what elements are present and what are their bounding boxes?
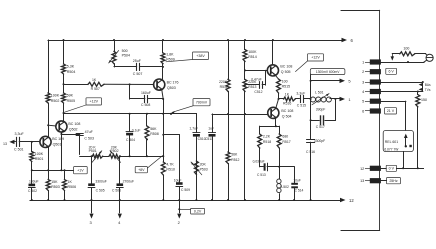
svg-text:6 V: 6 V bbox=[388, 70, 394, 74]
wire Q505 base bbox=[245, 70, 267, 72]
svg-text:100K: 100K bbox=[248, 50, 257, 54]
wire Q501 collector to Q502 base bbox=[48, 125, 50, 136]
resistor 150 bbox=[417, 92, 419, 95]
frame right border bbox=[341, 10, 380, 12]
capacitor C503 bbox=[76, 133, 83, 135]
potentiometer P504 bbox=[113, 39, 115, 41]
svg-text:BC 176: BC 176 bbox=[167, 80, 179, 84]
svg-text:BC 108: BC 108 bbox=[280, 64, 292, 68]
box +1V bbox=[74, 167, 88, 174]
node rail x63.5 bbox=[63, 39, 65, 41]
wire R501 column bbox=[31, 142, 33, 152]
svg-text:L 501: L 501 bbox=[315, 90, 324, 94]
svg-text:20K: 20K bbox=[200, 162, 207, 166]
svg-text:0,47uF: 0,47uF bbox=[251, 77, 262, 81]
svg-text:R510: R510 bbox=[166, 168, 175, 172]
wire Q502 collector up bbox=[63, 113, 65, 121]
capacitor C510 column bbox=[196, 114, 198, 133]
svg-text:10uF: 10uF bbox=[293, 179, 300, 183]
capacitor C509 column bbox=[163, 134, 179, 136]
wire pin3 bbox=[381, 82, 423, 84]
svg-text:R516: R516 bbox=[283, 102, 291, 106]
svg-text:C511: C511 bbox=[205, 137, 213, 141]
node arrow 6 (top rail off-page) bbox=[342, 38, 348, 43]
svg-text:R508: R508 bbox=[150, 132, 159, 136]
node arrow 12 (bottom rail off-page) bbox=[340, 198, 346, 203]
resistor R509 bbox=[162, 39, 164, 41]
svg-text:BAs: BAs bbox=[425, 83, 431, 87]
svg-text:100K: 100K bbox=[35, 152, 44, 156]
svg-text:13: 13 bbox=[360, 179, 364, 183]
capacitor C517 bbox=[310, 119, 312, 121]
svg-text:1K: 1K bbox=[92, 78, 97, 82]
resistor R501 bbox=[30, 152, 34, 162]
svg-text:BC 108: BC 108 bbox=[68, 122, 80, 126]
svg-text:R514: R514 bbox=[248, 55, 257, 59]
resistor R508 bbox=[146, 113, 148, 115]
svg-text:700mV: 700mV bbox=[196, 101, 208, 105]
svg-text:C 502: C 502 bbox=[28, 189, 37, 193]
svg-text:56K: 56K bbox=[150, 127, 157, 131]
wire Q503 emitter down bbox=[162, 90, 163, 99]
capacitor C507 bbox=[136, 63, 138, 70]
svg-text:R517: R517 bbox=[282, 140, 290, 144]
node arrow 3 bbox=[91, 200, 93, 213]
svg-text:P501: P501 bbox=[89, 149, 97, 153]
svg-text:220K: 220K bbox=[219, 80, 228, 84]
svg-text:C 503: C 503 bbox=[84, 137, 94, 141]
svg-text:1,7uF: 1,7uF bbox=[189, 127, 198, 131]
resistor R503 bbox=[48, 170, 50, 179]
svg-text:4: 4 bbox=[362, 90, 364, 94]
svg-text:C512: C512 bbox=[254, 90, 262, 94]
ground arrow bbox=[392, 54, 394, 57]
svg-text:0 V: 0 V bbox=[389, 167, 395, 171]
capacitor C501 bbox=[16, 137, 18, 146]
svg-text:6.077 7W: 6.077 7W bbox=[384, 147, 399, 151]
svg-text:59K: 59K bbox=[67, 94, 74, 98]
svg-text:2: 2 bbox=[362, 70, 364, 74]
svg-text:C 504: C 504 bbox=[126, 138, 135, 142]
svg-text:12: 12 bbox=[360, 167, 364, 171]
svg-text:13: 13 bbox=[3, 142, 7, 146]
box 21V bbox=[385, 108, 397, 114]
wire Q504 collector bbox=[276, 99, 279, 108]
resistor R505 bbox=[63, 84, 65, 93]
svg-text:Q502: Q502 bbox=[69, 127, 78, 131]
svg-text:47uF: 47uF bbox=[85, 130, 94, 134]
potentiometer P503 bbox=[194, 161, 198, 175]
svg-text:390pF: 390pF bbox=[316, 108, 326, 112]
svg-text:Q503: Q503 bbox=[167, 86, 176, 90]
node arrow 2 bbox=[179, 200, 181, 213]
wire pin1 to earphone bbox=[381, 62, 424, 64]
svg-text:+1V: +1V bbox=[77, 169, 84, 173]
svg-text:R511: R511 bbox=[220, 85, 228, 89]
transistor Q503 bbox=[154, 79, 165, 90]
resistor R515 bbox=[276, 75, 279, 79]
svg-text:4,7K: 4,7K bbox=[166, 162, 174, 166]
wire to C507 bbox=[114, 66, 137, 68]
svg-text:1K: 1K bbox=[68, 180, 73, 184]
svg-text:10uF: 10uF bbox=[174, 178, 182, 182]
svg-text:+12V: +12V bbox=[311, 56, 320, 60]
svg-text:160uF: 160uF bbox=[141, 91, 151, 95]
svg-text:L502: L502 bbox=[281, 185, 289, 189]
box 1300mV 600mV bbox=[310, 69, 345, 75]
resistor R506 bbox=[64, 169, 66, 171]
resistor R510 bbox=[162, 155, 164, 157]
svg-text:680: 680 bbox=[282, 135, 288, 139]
svg-text:R503: R503 bbox=[51, 185, 60, 189]
svg-text:C 514: C 514 bbox=[295, 189, 304, 193]
svg-text:0,1uF: 0,1uF bbox=[132, 128, 141, 132]
svg-text:12: 12 bbox=[349, 198, 354, 203]
svg-text:5: 5 bbox=[362, 100, 364, 104]
svg-text:R 507: R 507 bbox=[91, 87, 100, 91]
svg-text:+8V: +8V bbox=[138, 168, 145, 172]
capacitor C512 bbox=[244, 84, 246, 86]
svg-text:5,3K: 5,3K bbox=[67, 65, 75, 69]
wire mid rail y113 bbox=[64, 113, 197, 115]
box +12V bbox=[308, 54, 324, 61]
box 0.2V bbox=[178, 208, 180, 210]
svg-text:C 509: C 509 bbox=[181, 188, 190, 192]
wire Q505 collector bbox=[272, 40, 274, 65]
svg-text:R504: R504 bbox=[67, 70, 76, 74]
wire Q501 emitter down bbox=[48, 147, 50, 170]
svg-text:R505: R505 bbox=[67, 99, 76, 103]
resistor R507 bbox=[88, 82, 104, 86]
wire y170 bias line bbox=[32, 170, 74, 172]
wire pot row y156 bbox=[80, 156, 93, 158]
svg-text:R512: R512 bbox=[231, 158, 239, 162]
svg-text:100K: 100K bbox=[51, 94, 60, 98]
svg-text:0,033uF: 0,033uF bbox=[253, 160, 265, 164]
svg-text:C 508: C 508 bbox=[141, 103, 150, 107]
svg-text:R515: R515 bbox=[282, 85, 291, 89]
svg-text:100uF: 100uF bbox=[29, 180, 39, 184]
resistor R514 bbox=[244, 39, 246, 41]
wire pin5 to relay bbox=[381, 101, 406, 103]
svg-text:1K: 1K bbox=[285, 92, 290, 96]
diodes bbox=[422, 82, 424, 92]
box 6V bbox=[386, 68, 397, 74]
wire top supply rail bbox=[48, 40, 342, 42]
svg-text:25Hz: 25Hz bbox=[389, 179, 398, 183]
svg-text:3,3uF: 3,3uF bbox=[15, 132, 25, 136]
wire box to node bbox=[310, 75, 312, 99]
svg-text:1,8K: 1,8K bbox=[166, 53, 174, 57]
capacitor C516 column bbox=[310, 99, 312, 139]
svg-text:25uF: 25uF bbox=[133, 59, 142, 63]
svg-text:+38V: +38V bbox=[196, 54, 205, 58]
capacitor C514 bbox=[291, 183, 298, 185]
capacitor C506 column bbox=[119, 156, 121, 183]
svg-text:3: 3 bbox=[362, 81, 364, 85]
svg-text:3300uF: 3300uF bbox=[95, 179, 106, 183]
relay REL601 bbox=[383, 131, 413, 152]
svg-text:21 V: 21 V bbox=[387, 109, 395, 113]
wire R510 node bbox=[163, 114, 165, 156]
resistor 100 bbox=[392, 53, 400, 55]
box 0V bbox=[386, 165, 396, 171]
svg-text:100: 100 bbox=[403, 46, 409, 50]
transistor Q501 bbox=[40, 136, 51, 147]
svg-text:15K: 15K bbox=[51, 180, 58, 184]
svg-text:P504: P504 bbox=[122, 54, 130, 58]
wire R507 row y84.3 bbox=[64, 84, 89, 86]
node arrow 5 bbox=[311, 80, 340, 82]
box +18V bbox=[193, 52, 209, 60]
box +52V bbox=[86, 98, 102, 105]
node arrow 4 bbox=[119, 200, 121, 213]
svg-text:C 515: C 515 bbox=[297, 103, 306, 107]
wire pin4 bbox=[381, 91, 423, 93]
wire bottom ground rail bbox=[30, 200, 340, 202]
svg-text:R513: R513 bbox=[248, 85, 256, 89]
wire to C503 bbox=[61, 134, 79, 136]
svg-text:+12V: +12V bbox=[90, 100, 99, 104]
capacitor C504 column bbox=[129, 113, 131, 115]
svg-text:500: 500 bbox=[122, 49, 128, 53]
svg-text:1300mV 600mV: 1300mV 600mV bbox=[316, 70, 340, 74]
wire R513 column down bbox=[244, 113, 246, 115]
resistor R512 bbox=[227, 113, 229, 115]
svg-text:Q 504: Q 504 bbox=[282, 114, 292, 118]
box 25Hz bbox=[387, 178, 401, 184]
resistor R511 bbox=[227, 39, 229, 41]
inductor L502 bbox=[279, 148, 281, 179]
transistor Q502 bbox=[56, 121, 67, 132]
svg-text:R518: R518 bbox=[263, 140, 271, 144]
svg-text:2,2K: 2,2K bbox=[263, 135, 271, 139]
box 700mV bbox=[193, 99, 210, 106]
node arrow 1 bbox=[335, 98, 340, 100]
resistor R516 bbox=[279, 98, 284, 100]
svg-text:2700uF: 2700uF bbox=[123, 179, 134, 183]
svg-text:R506: R506 bbox=[68, 185, 77, 189]
svg-text:R501: R501 bbox=[35, 157, 44, 161]
box +8V bbox=[135, 167, 147, 173]
svg-text:BC 108: BC 108 bbox=[281, 109, 293, 113]
svg-text:C 501: C 501 bbox=[14, 148, 24, 152]
wire left column x48 bbox=[48, 40, 50, 93]
svg-text:100: 100 bbox=[282, 79, 288, 83]
svg-text:0,2V: 0,2V bbox=[194, 210, 202, 214]
transistor Q505 bbox=[267, 65, 278, 76]
svg-text:R502: R502 bbox=[51, 99, 60, 103]
svg-text:P503: P503 bbox=[200, 168, 208, 172]
svg-text:C 505: C 505 bbox=[96, 189, 105, 193]
svg-text:56K: 56K bbox=[231, 153, 238, 157]
svg-text:C 513: C 513 bbox=[257, 173, 266, 177]
wire Q502 emitter column bbox=[61, 132, 63, 170]
svg-text:6: 6 bbox=[362, 110, 364, 114]
resistor R502 bbox=[46, 93, 50, 103]
wire Q504 emitter node bbox=[275, 118, 277, 126]
svg-text:REL 601: REL 601 bbox=[385, 140, 398, 144]
svg-text:Q 505: Q 505 bbox=[281, 70, 291, 74]
svg-text:TVs: TVs bbox=[425, 88, 431, 92]
resistor R504 bbox=[63, 40, 65, 64]
svg-text:3300pF: 3300pF bbox=[314, 139, 325, 143]
svg-text:C 507: C 507 bbox=[133, 72, 143, 76]
svg-text:1: 1 bbox=[362, 61, 364, 65]
resistor R513 bbox=[244, 70, 246, 79]
earphone bbox=[424, 60, 427, 62]
resistor R517 bbox=[279, 126, 281, 134]
svg-text:1uF: 1uF bbox=[208, 127, 214, 131]
capacitor C505 column bbox=[91, 156, 93, 183]
wire relay to 0V bbox=[403, 152, 405, 169]
svg-text:Q501: Q501 bbox=[53, 143, 62, 147]
transistor Q504 bbox=[268, 107, 279, 118]
svg-text:BC 109: BC 109 bbox=[52, 137, 64, 141]
capacitor C508 branch bbox=[129, 84, 131, 99]
capacitor C515 bbox=[300, 96, 302, 103]
capacitor C511 column bbox=[212, 114, 214, 132]
resistor R518 bbox=[259, 126, 261, 134]
svg-text:C 517: C 517 bbox=[316, 125, 325, 129]
svg-text:3,3uF: 3,3uF bbox=[296, 92, 305, 96]
wire Q504 base rail bbox=[212, 114, 268, 116]
svg-text:150: 150 bbox=[421, 98, 427, 102]
